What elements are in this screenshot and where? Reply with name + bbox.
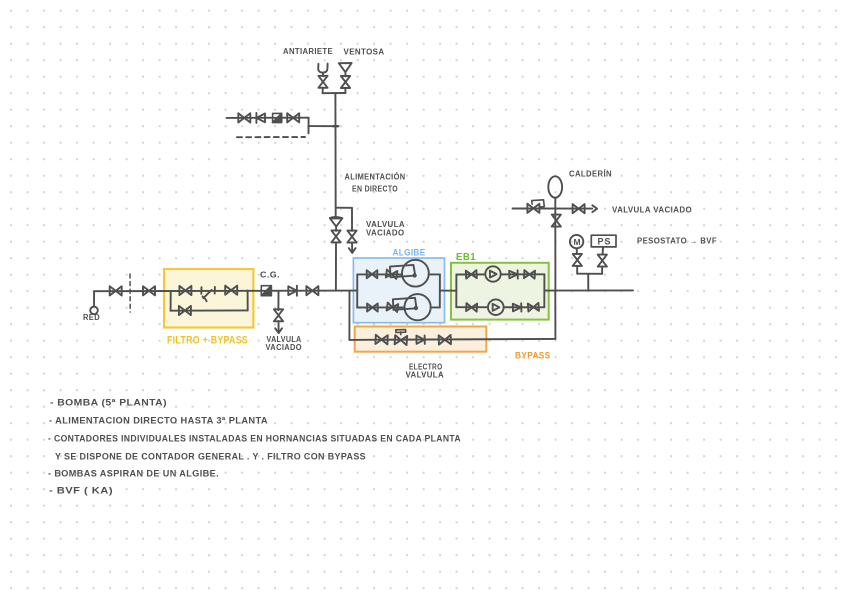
- wire calderin stem: [554, 198, 556, 291]
- valve main 3: [306, 286, 318, 295]
- wire bypass drop (to electrovalvula line): [348, 291, 350, 340]
- valve riser isolation: [331, 230, 340, 242]
- valve ventosa isolation: [341, 76, 350, 88]
- wire antiariete stem: [322, 73, 324, 77]
- manometer M circle: [570, 235, 583, 248]
- wire EB1 left header: [455, 275, 457, 308]
- wire algibe bottom branch: [357, 306, 405, 308]
- ventosa symbol (funnel): [339, 63, 352, 72]
- valve bypass line 1: [375, 335, 387, 345]
- svg-text:VACIADO: VACIADO: [366, 229, 405, 238]
- svg-text:VACIADO: VACIADO: [266, 343, 303, 352]
- filter symbol: [201, 287, 215, 301]
- arrowhead vaciado: [592, 205, 597, 212]
- wire bypass right riser: [247, 291, 249, 311]
- valve EB1 bottom inlet: [466, 303, 477, 312]
- wire main line right: [544, 289, 633, 291]
- valve bypass: [179, 306, 191, 315]
- valve antiariete isolation: [318, 76, 327, 88]
- wire algibe top branch: [357, 273, 403, 275]
- valve CG drain: [274, 309, 283, 321]
- svg-text:EN DIRECTO: EN DIRECTO: [352, 185, 398, 194]
- svg-text:PESOSTATO → BVF: PESOSTATO → BVF: [637, 237, 717, 246]
- svg-text:CALDERÍN: CALDERÍN: [569, 170, 612, 179]
- svg-text:- BVF ( KA): - BVF ( KA): [49, 486, 113, 497]
- valve EB1 bottom outlet: [528, 303, 539, 312]
- wire algibe right header: [439, 274, 441, 307]
- svg-text:PS: PS: [598, 237, 612, 247]
- valve filter inlet: [179, 286, 191, 295]
- wire bypass lower line: [171, 309, 248, 311]
- pump B1 motor frame: [390, 265, 415, 277]
- pump EB1 top (circle+triangle): [485, 266, 500, 281]
- check valve algibe top: [386, 270, 398, 279]
- valve vaciado outlet: [573, 204, 585, 213]
- wire ventosa drop: [344, 88, 346, 93]
- wire bypass left drop: [170, 291, 172, 311]
- wire vaciado header line: [513, 208, 593, 210]
- valve EB1 top inlet: [466, 270, 477, 279]
- arrowhead drain (valvula vaciado): [349, 248, 356, 253]
- wire M/PS collector: [577, 273, 602, 275]
- antiariete symbol (U): [318, 64, 327, 73]
- valve under calderin junction: [552, 215, 561, 227]
- svg-text:FILTRO + BYPASS: FILTRO + BYPASS: [167, 335, 248, 347]
- wire main line left: [94, 290, 357, 293]
- valve PS: [598, 255, 607, 267]
- pump EB1 bottom (circle+triangle): [488, 299, 504, 315]
- svg-text:BYPASS: BYPASS: [515, 351, 551, 362]
- wire drain stem: [351, 242, 353, 250]
- pump B2 junction dot: [414, 306, 418, 310]
- valve branch isolation 2: [287, 113, 299, 122]
- pump B1 body circle: [402, 260, 429, 287]
- wire CG drain drop: [277, 291, 279, 310]
- wire algibe left header: [356, 274, 358, 307]
- wire upper-left meter branch: [227, 117, 309, 119]
- wire header connecting antiariete and ventosa: [323, 92, 346, 94]
- highlight box FILTRO+BYPASS (yellow): [164, 269, 253, 328]
- svg-text:- CONTADORES INDIVIDUALES INST: - CONTADORES INDIVIDUALES INSTALADAS EN …: [48, 434, 461, 445]
- wire riser to main line: [335, 227, 337, 291]
- check valve algibe bottom: [387, 303, 399, 312]
- valve main 1: [110, 286, 122, 295]
- wire branch corner drop: [308, 118, 310, 134]
- svg-text:Y SE DISPONE DE CONTADOR GENER: Y SE DISPONE DE CONTADOR GENERAL . Y . F…: [55, 452, 366, 463]
- valve manometer: [573, 254, 582, 266]
- svg-text:ALIMENTACIÓN: ALIMENTACIÓN: [345, 173, 406, 182]
- dashed future line: [237, 136, 305, 138]
- wire antiariete drop: [322, 88, 324, 94]
- valve main 2: [143, 286, 155, 295]
- check valve main (after CG): [288, 286, 297, 296]
- meter contador general C.G.: [261, 286, 271, 296]
- wire EB1 bottom branch: [456, 306, 544, 308]
- wire main line between boxes: [440, 290, 457, 292]
- wire collector drop to main: [587, 274, 589, 291]
- node RED supply circle: [90, 307, 98, 315]
- check valve EB1 bottom: [513, 303, 522, 311]
- arrowhead CG drain: [275, 328, 282, 333]
- wire RED riser: [93, 291, 95, 306]
- wire CG drain stem: [278, 321, 280, 331]
- meter upper branch (counter): [273, 113, 282, 122]
- calderin vessel (oval): [548, 176, 562, 197]
- highlight box EB1 (green): [451, 263, 549, 320]
- pump B2 motor frame: [393, 298, 417, 310]
- valve algibe bottom suction: [367, 304, 378, 312]
- svg-text:VALVULA VACIADO: VALVULA VACIADO: [612, 206, 692, 215]
- check valve EB1 top: [509, 270, 518, 278]
- pressure switch PS box: [591, 235, 616, 247]
- dashed property limit: [129, 274, 131, 312]
- wire riser jog to drain branch: [336, 208, 352, 231]
- pump B1 junction dot: [412, 273, 416, 277]
- svg-text:VENTOSA: VENTOSA: [344, 48, 385, 57]
- motor valve actuator box: [532, 200, 545, 207]
- wire main riser (vertical feed): [334, 93, 336, 218]
- svg-text:- BOMBAS ASPIRAN DE UN ALGIBE.: - BOMBAS ASPIRAN DE UN ALGIBE.: [48, 469, 219, 480]
- check valve bypass: [416, 335, 424, 344]
- wire bypass riser to main: [554, 291, 556, 339]
- svg-text:C.G.: C.G.: [260, 271, 280, 280]
- svg-text:M: M: [574, 237, 581, 247]
- highlight box ELECTROVALVULA (orange): [355, 327, 487, 352]
- highlight box ALGIBE (blue): [353, 258, 444, 323]
- valve filter outlet: [225, 286, 237, 295]
- wire algibe top outlet: [429, 273, 440, 275]
- valve drain branch: [347, 231, 356, 243]
- wire electrovalvula bypass line: [349, 339, 555, 340]
- wire PS drop: [601, 266, 603, 273]
- svg-text:EB1: EB1: [456, 252, 476, 263]
- svg-text:- BOMBA (5ª PLANTA): - BOMBA (5ª PLANTA): [50, 398, 167, 409]
- valve algibe top suction: [367, 270, 378, 278]
- wire ventosa stem: [344, 72, 346, 76]
- wire manometer stem: [576, 248, 578, 254]
- electrovalve solenoid head: [396, 330, 406, 335]
- check valve branch (flow left): [256, 113, 265, 123]
- electrovalve body: [395, 335, 408, 345]
- wire manometer drop: [576, 266, 578, 274]
- wire PS stem: [602, 247, 604, 255]
- motor valve on vaciado header: [527, 204, 539, 213]
- wire algibe bottom outlet: [431, 306, 440, 308]
- check valve on riser (flow down): [330, 217, 343, 227]
- svg-text:- ALIMENTACION DIRECTO HASTA 3: - ALIMENTACION DIRECTO HASTA 3ª PLANTA: [49, 416, 268, 427]
- svg-text:ANTIARIETE: ANTIARIETE: [283, 47, 333, 56]
- svg-text:ALGIBE: ALGIBE: [393, 248, 426, 259]
- pump B2 body circle: [405, 294, 431, 320]
- wire branch to main riser: [309, 125, 338, 127]
- junction tick on riser: [333, 125, 338, 127]
- svg-text:RED: RED: [83, 313, 100, 322]
- svg-text:VALVULA: VALVULA: [406, 371, 445, 380]
- wire EB1 top branch: [456, 273, 544, 275]
- wire EB1 right header: [543, 274, 545, 307]
- valve branch isolation 1: [238, 113, 250, 122]
- valve EB1 top outlet: [524, 270, 535, 279]
- valve bypass line 2: [439, 335, 451, 345]
